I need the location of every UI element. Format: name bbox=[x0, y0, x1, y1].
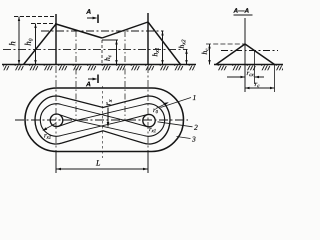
dimension h bbox=[18, 17, 20, 65]
svg-text:2: 2 bbox=[194, 123, 198, 132]
section centerline (vertical) bbox=[244, 18, 246, 92]
L extension left bbox=[55, 152, 57, 174]
dimension h_c (section) bbox=[209, 44, 211, 65]
section marker A (top): tick bbox=[97, 15, 99, 24]
plan: outer stadium contour 3 bbox=[25, 88, 184, 152]
svg-text:L: L bbox=[95, 158, 101, 167]
svg-text:r0: r0 bbox=[153, 107, 159, 115]
dimension hx2 bbox=[186, 49, 188, 64]
apex extension line bbox=[206, 43, 245, 45]
ground hatching (section) bbox=[214, 65, 283, 70]
extension line at cone apex (level h0) bbox=[31, 23, 56, 25]
leader line to 2 bbox=[158, 122, 193, 127]
plan: contour 2 right arc bbox=[143, 96, 170, 144]
svg-text:hc: hc bbox=[200, 48, 210, 55]
svg-text:A: A bbox=[85, 81, 91, 88]
plan: contour 1 cross lines (lower-right to left tip) bbox=[76, 120, 144, 135]
plan: contour 2 upper waist lines bbox=[62, 97, 143, 108]
lightning rod 2 (right mast) bbox=[147, 13, 149, 65]
projection line right teardrop tip bbox=[124, 31, 126, 121]
lightning rod 1 (left mast) bbox=[55, 14, 57, 65]
svg-text:hx2: hx2 bbox=[177, 39, 187, 48]
svg-text:h: h bbox=[7, 41, 17, 46]
plan: left rod circle r_x1 bbox=[50, 114, 63, 127]
plan: horizontal centerline bbox=[15, 119, 188, 121]
plan: radius arrow left (to contour 1) bbox=[44, 124, 56, 131]
ground hatching (elevation) bbox=[3, 65, 195, 70]
extension line from level crossing bbox=[254, 51, 256, 85]
plan: contour 1 cross lines (upper-left to right tip) bbox=[61, 104, 125, 120]
svg-text:rcx: rcx bbox=[246, 69, 254, 78]
section marker A (bottom): arrow bbox=[88, 78, 95, 80]
dimension hx1 (right of rods) bbox=[162, 31, 164, 65]
svg-text:h0: h0 bbox=[23, 38, 35, 46]
svg-text:rc: rc bbox=[254, 80, 260, 89]
section cone left slope bbox=[216, 44, 245, 65]
leader line to 1 bbox=[161, 98, 192, 108]
dimension r_c (inside arrows) bbox=[245, 87, 275, 89]
plan: contour 1 right arc bbox=[144, 104, 165, 136]
zone boundary: left outer slope bbox=[24, 24, 57, 65]
svg-text:rx1: rx1 bbox=[149, 126, 156, 134]
plan: right teardrop tangent lines bbox=[125, 115, 147, 127]
extension line at rod top (level h) bbox=[14, 16, 56, 18]
plan: contour 1 cross lines (lower-left to right tip) bbox=[61, 120, 125, 135]
section marker A (bottom): tick bbox=[97, 75, 99, 84]
svg-text:rx: rx bbox=[102, 99, 113, 105]
level line r_x (section) bbox=[221, 50, 278, 52]
svg-text:hc: hc bbox=[103, 54, 113, 61]
zone boundary: right inner slope to saddle bbox=[102, 22, 148, 38]
svg-text:hx1: hx1 bbox=[150, 47, 160, 56]
plan: contour 2 lower waist lines bbox=[62, 131, 143, 143]
plan: contour 2 left arc bbox=[35, 96, 62, 144]
saddle extension line bbox=[102, 39, 118, 41]
centerline right circle (vertical) bbox=[147, 66, 149, 152]
projection line left teardrop tip bbox=[75, 31, 77, 121]
svg-text:3: 3 bbox=[191, 134, 196, 143]
dimension h_c bbox=[116, 40, 118, 65]
plan: dimension r_x (middle vertical) bbox=[107, 108, 109, 127]
plan: left teardrop tangent lines bbox=[59, 114, 77, 126]
leader line to 3 bbox=[177, 137, 191, 139]
zone boundary: left inner slope to saddle bbox=[56, 24, 102, 38]
extension line right base bbox=[274, 65, 276, 92]
section marker A (top): arrow bbox=[87, 17, 95, 19]
dimension h0 bbox=[35, 24, 37, 65]
ground line (elevation) bbox=[2, 64, 196, 66]
plan: radius arrow right (to contour 2) bbox=[156, 103, 168, 109]
ground line (section) bbox=[214, 64, 283, 66]
centerline left circle (vertical) bbox=[55, 66, 57, 152]
level line hx1 (dash-dot) bbox=[41, 30, 164, 32]
plan: contour 1 left arc bbox=[40, 104, 61, 136]
dimension r_cx (outside arrows) bbox=[227, 76, 245, 78]
midline of plan (vertical dashed) bbox=[102, 86, 104, 158]
section A-A title underline bbox=[234, 14, 253, 16]
zone boundary: right outer slope bbox=[148, 22, 181, 65]
plan: contour 1 cross lines (upper-right to left tip) bbox=[76, 104, 144, 120]
svg-text:A: A bbox=[85, 9, 91, 16]
level line hx2 (dash-dot) bbox=[3, 48, 188, 50]
dashed projection from saddle to ground bbox=[101, 40, 103, 65]
svg-text:1: 1 bbox=[192, 93, 196, 102]
dimension L bbox=[56, 168, 148, 170]
svg-text:A—A: A—A bbox=[232, 8, 249, 15]
L extension right bbox=[147, 152, 149, 174]
section cone right slope bbox=[245, 44, 275, 65]
plan: right rod circle r_x1 bbox=[143, 114, 155, 126]
